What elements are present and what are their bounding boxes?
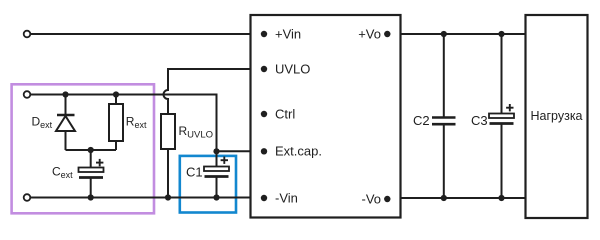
svg-text:+Vo: +Vo bbox=[358, 27, 381, 42]
svg-text:C2: C2 bbox=[413, 113, 430, 128]
svg-text:+Vin: +Vin bbox=[275, 27, 301, 42]
svg-text:Нагрузка: Нагрузка bbox=[530, 109, 582, 123]
svg-text:Ctrl: Ctrl bbox=[275, 107, 295, 122]
svg-text:C1: C1 bbox=[186, 165, 203, 180]
svg-text:C3: C3 bbox=[471, 113, 488, 128]
svg-text:Ext.cap.: Ext.cap. bbox=[275, 144, 322, 159]
svg-text:-Vo: -Vo bbox=[361, 192, 381, 207]
svg-text:UVLO: UVLO bbox=[275, 62, 310, 77]
svg-text:-Vin: -Vin bbox=[275, 191, 298, 206]
